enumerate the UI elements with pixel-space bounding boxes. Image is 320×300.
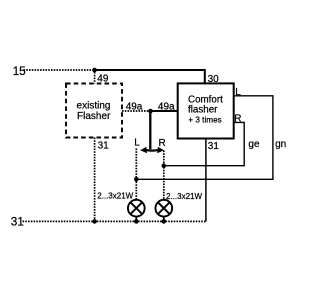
svg-text:gn: gn xyxy=(275,139,286,150)
svg-text:existing: existing xyxy=(77,101,111,112)
svg-text:31: 31 xyxy=(11,214,24,228)
svg-text:49a: 49a xyxy=(126,102,143,113)
svg-text:31: 31 xyxy=(208,141,220,152)
svg-text:Flasher: Flasher xyxy=(77,111,111,122)
svg-text:15: 15 xyxy=(13,64,27,78)
svg-text:49a: 49a xyxy=(158,102,175,113)
svg-text:R: R xyxy=(159,138,166,149)
svg-text:31: 31 xyxy=(98,140,110,151)
svg-text:L: L xyxy=(134,138,140,149)
svg-text:2...3x21W: 2...3x21W xyxy=(97,192,133,201)
svg-text:2...3x21W: 2...3x21W xyxy=(166,192,202,201)
svg-text:+ 3 times: + 3 times xyxy=(188,116,221,125)
svg-text:flasher: flasher xyxy=(188,104,218,115)
svg-text:ge: ge xyxy=(248,139,260,150)
